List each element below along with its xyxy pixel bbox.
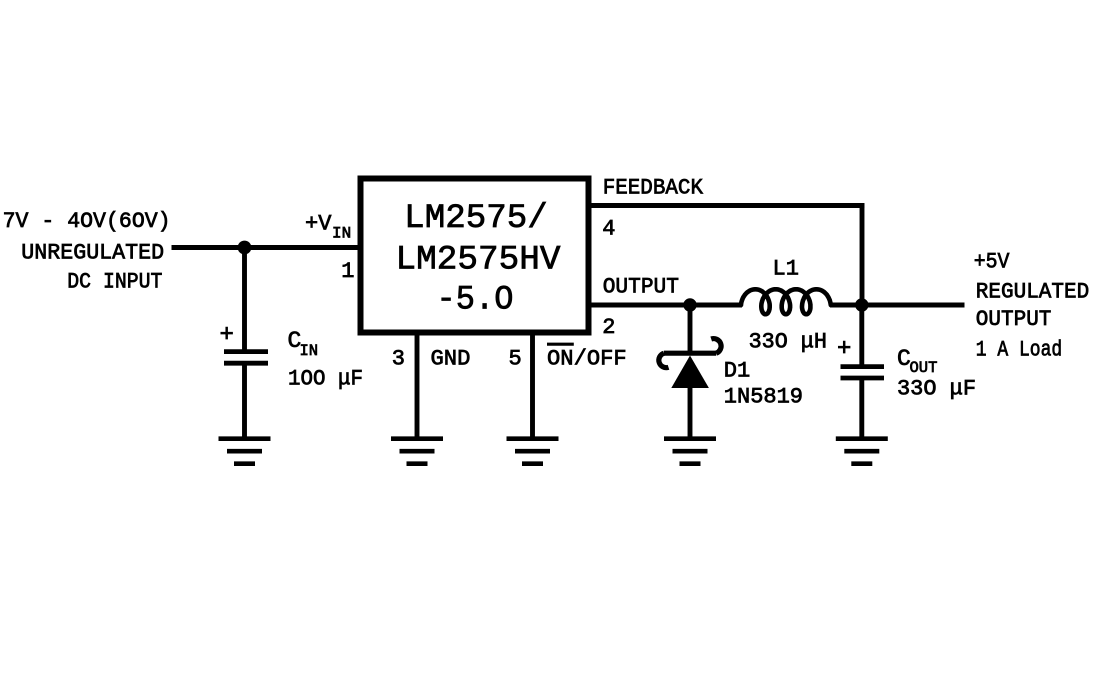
wire COUT branch from output node — [859, 305, 864, 366]
label C_OUT — [897, 346, 937, 377]
svg-text:LM2575/: LM2575/ — [404, 200, 548, 238]
svg-text:GND: GND — [431, 347, 471, 372]
svg-text:+: + — [220, 322, 234, 349]
ground under pin 5 — [507, 439, 559, 464]
svg-text:+V: +V — [305, 212, 332, 237]
svg-text:D1: D1 — [724, 358, 750, 383]
node input junction — [238, 241, 252, 255]
svg-text:2: 2 — [602, 315, 615, 340]
label regulated output load — [974, 250, 1089, 363]
value label LM2575/LM2575HV -5.0 — [396, 200, 562, 320]
wire pin 3 to ground — [415, 334, 420, 438]
svg-text:OUTPUT: OUTPUT — [976, 307, 1052, 332]
wire CIN to ground — [242, 364, 247, 438]
svg-text:UNREGULATED: UNREGULATED — [21, 241, 164, 266]
label +VIN pin — [305, 212, 351, 243]
diode D1 anode triangle — [671, 356, 709, 389]
wire D1 anode to ground — [688, 386, 693, 438]
capacitor C_OUT — [841, 367, 885, 378]
ground under C_IN — [219, 439, 271, 464]
svg-text:ON/OFF: ON/OFF — [547, 347, 627, 372]
svg-text:-5.O: -5.O — [437, 282, 514, 320]
svg-text:1: 1 — [341, 259, 354, 284]
svg-text:+5V: +5V — [974, 250, 1011, 275]
svg-text:L1: L1 — [773, 257, 799, 282]
svg-text:IN: IN — [300, 342, 319, 360]
wire pin 5 to ground — [530, 334, 535, 438]
svg-text:FEEDBACK: FEEDBACK — [603, 176, 704, 201]
wire input line to IC pin 1 — [172, 245, 358, 250]
ground under C_OUT — [836, 439, 888, 464]
wire feedback vertical to output node — [860, 203, 865, 305]
svg-text:REGULATED: REGULATED — [976, 279, 1089, 304]
wire feedback horizontal from pin 4 — [589, 203, 864, 208]
node output junction at COUT — [855, 298, 868, 311]
inductor L1 coil — [741, 289, 831, 314]
ground under pin 3 — [391, 439, 443, 464]
diode D1 schottky cathode bar — [659, 339, 721, 368]
wire CIN branch from input node — [242, 248, 247, 352]
svg-text:3: 3 — [392, 347, 405, 372]
wire inductor to output node and load — [830, 303, 965, 308]
capacitor C_IN — [224, 352, 268, 364]
svg-text:OUTPUT: OUTPUT — [603, 275, 679, 300]
svg-text:LM2575HV: LM2575HV — [396, 242, 562, 280]
svg-text:1 A Load: 1 A Load — [976, 338, 1062, 363]
svg-text:4: 4 — [602, 217, 615, 242]
label unregulated DC input source — [3, 209, 171, 295]
overline on ON — [547, 343, 574, 346]
svg-text:5: 5 — [509, 347, 522, 372]
svg-text:33O μF: 33O μF — [897, 377, 976, 402]
label C_IN — [288, 328, 319, 360]
node switch junction at D1 — [683, 298, 696, 311]
svg-text:IN: IN — [332, 225, 351, 243]
svg-text:+: + — [837, 336, 851, 363]
svg-text:1N5819: 1N5819 — [724, 385, 803, 410]
regulator IC U1 LM2575 box — [361, 179, 589, 333]
svg-text:33O μH: 33O μH — [749, 330, 827, 355]
wire COUT to ground — [859, 378, 864, 438]
wire pin 2 output to inductor — [589, 303, 742, 308]
svg-text:7V - 4OV(6OV): 7V - 4OV(6OV) — [3, 209, 171, 234]
wire D1 cathode to switch node — [688, 305, 693, 351]
svg-text:DC INPUT: DC INPUT — [67, 270, 162, 295]
svg-text:1OO μF: 1OO μF — [288, 367, 363, 392]
ground under D1 — [664, 439, 716, 464]
svg-text:OUT: OUT — [910, 359, 938, 377]
